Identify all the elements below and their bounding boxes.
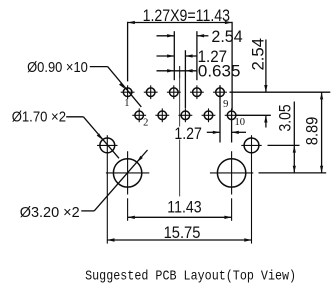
svg-text:Ø0.90 ×10: Ø0.90 ×10 <box>27 60 88 76</box>
centerline / extension of phi1.70 left (15.75 ext) <box>106 135 108 243</box>
dim 1.27 bottom right arrow <box>232 131 246 134</box>
extension line right y=92.2 <box>230 91 331 93</box>
arrowhead right of 1.27X9 dim <box>225 21 232 24</box>
svg-text:0.635: 0.635 <box>198 62 241 80</box>
dim 3.05 vertical line <box>293 102 296 173</box>
hole 6 (bottom row) <box>179 108 193 122</box>
svg-text:2: 2 <box>143 118 148 129</box>
arrowhead left of 1.27X9 dim <box>128 21 135 24</box>
mounting hole phi3.20 left <box>106 159 149 187</box>
extension line below hole9 (bottom 1.27 dim) <box>219 85 221 142</box>
hole 8 (bottom row) <box>202 108 216 122</box>
dim 0.635 row (stack3) line <box>157 69 197 72</box>
svg-text:1: 1 <box>124 98 129 109</box>
hole 2 (bottom row) <box>132 108 146 122</box>
svg-text:15.75: 15.75 <box>164 224 201 242</box>
dim 8.89 vertical line <box>320 92 323 173</box>
mounting hole phi1.70 right <box>241 138 261 153</box>
extension line hole1 (top dim left) <box>127 22 129 82</box>
vertical centerline phi3.20 left (11.43 ext) <box>127 151 129 194</box>
dim 2.54 vertical line <box>264 40 267 128</box>
dim 1.27 row (stack2) right arrow <box>185 54 197 57</box>
hole 5 (top row) <box>167 85 181 99</box>
hole 1 (top row) <box>121 85 135 99</box>
svg-text:3.05: 3.05 <box>277 104 295 131</box>
leader phi3.20 <box>81 150 147 211</box>
tick C (half-pitch, x=179.7) <box>179 66 181 78</box>
vertical centerline phi3.20 right (11.43 ext) <box>231 151 233 194</box>
svg-text:10: 10 <box>234 117 245 128</box>
hole 9 (top row) <box>213 85 227 99</box>
extension line right y=145.4 <box>268 144 300 146</box>
extension line below hole10 (bottom 1.27 dim) <box>231 108 233 142</box>
extension line B (hole6 bottom, x=185.4) <box>184 50 186 108</box>
extension line right y=115.3 <box>237 114 271 116</box>
dim 2.54 row (top stack) right arrow <box>197 34 209 37</box>
hole 7 (top row) <box>190 85 204 99</box>
hole 10 (bottom row) <box>225 111 239 120</box>
dimension line 11.43 bottom <box>128 216 232 219</box>
svg-text:8.89: 8.89 <box>304 117 322 146</box>
svg-text:1.27: 1.27 <box>174 125 202 143</box>
svg-text:9: 9 <box>223 99 228 110</box>
svg-text:2.54: 2.54 <box>250 38 268 71</box>
svg-text:1.27X9=11.43: 1.27X9=11.43 <box>143 7 230 25</box>
leader phi0.90 <box>90 67 142 107</box>
vertical centerline of pattern <box>179 66 181 196</box>
svg-text:2.54: 2.54 <box>211 28 242 46</box>
centerline / extension of phi1.70 right (15.75 ext) <box>251 135 253 243</box>
svg-text:Suggested PCB Layout(Top View): Suggested PCB Layout(Top View) <box>85 268 296 284</box>
hole 4 (bottom row) <box>155 108 169 122</box>
dim 1.27 bottom left arrow <box>207 131 220 134</box>
svg-text:Ø3.20 ×2: Ø3.20 ×2 <box>20 205 80 221</box>
svg-text:Ø1.70 ×2: Ø1.70 ×2 <box>12 110 66 126</box>
extension line A (hole5 top, x=174.3) <box>173 31 175 80</box>
mounting hole phi3.20 right <box>210 159 253 187</box>
dimension line 1.27X9=11.43 <box>128 22 233 24</box>
dim 1.27 row (stack2) left arrow <box>157 54 175 57</box>
svg-text:11.43: 11.43 <box>167 198 201 216</box>
extension line D (hole7 top, x=196.9) <box>196 31 198 80</box>
hole 3 (top row) <box>144 85 158 99</box>
mounting hole phi1.70 left <box>97 138 117 153</box>
dim 2.54 row (top stack) left arrow <box>157 34 175 37</box>
extension line right y=172.9 <box>259 172 327 174</box>
dimension line 15.75 bottom <box>107 238 251 241</box>
leader phi1.70 <box>66 117 119 159</box>
extension line hole10 (top dim right) <box>231 22 233 110</box>
